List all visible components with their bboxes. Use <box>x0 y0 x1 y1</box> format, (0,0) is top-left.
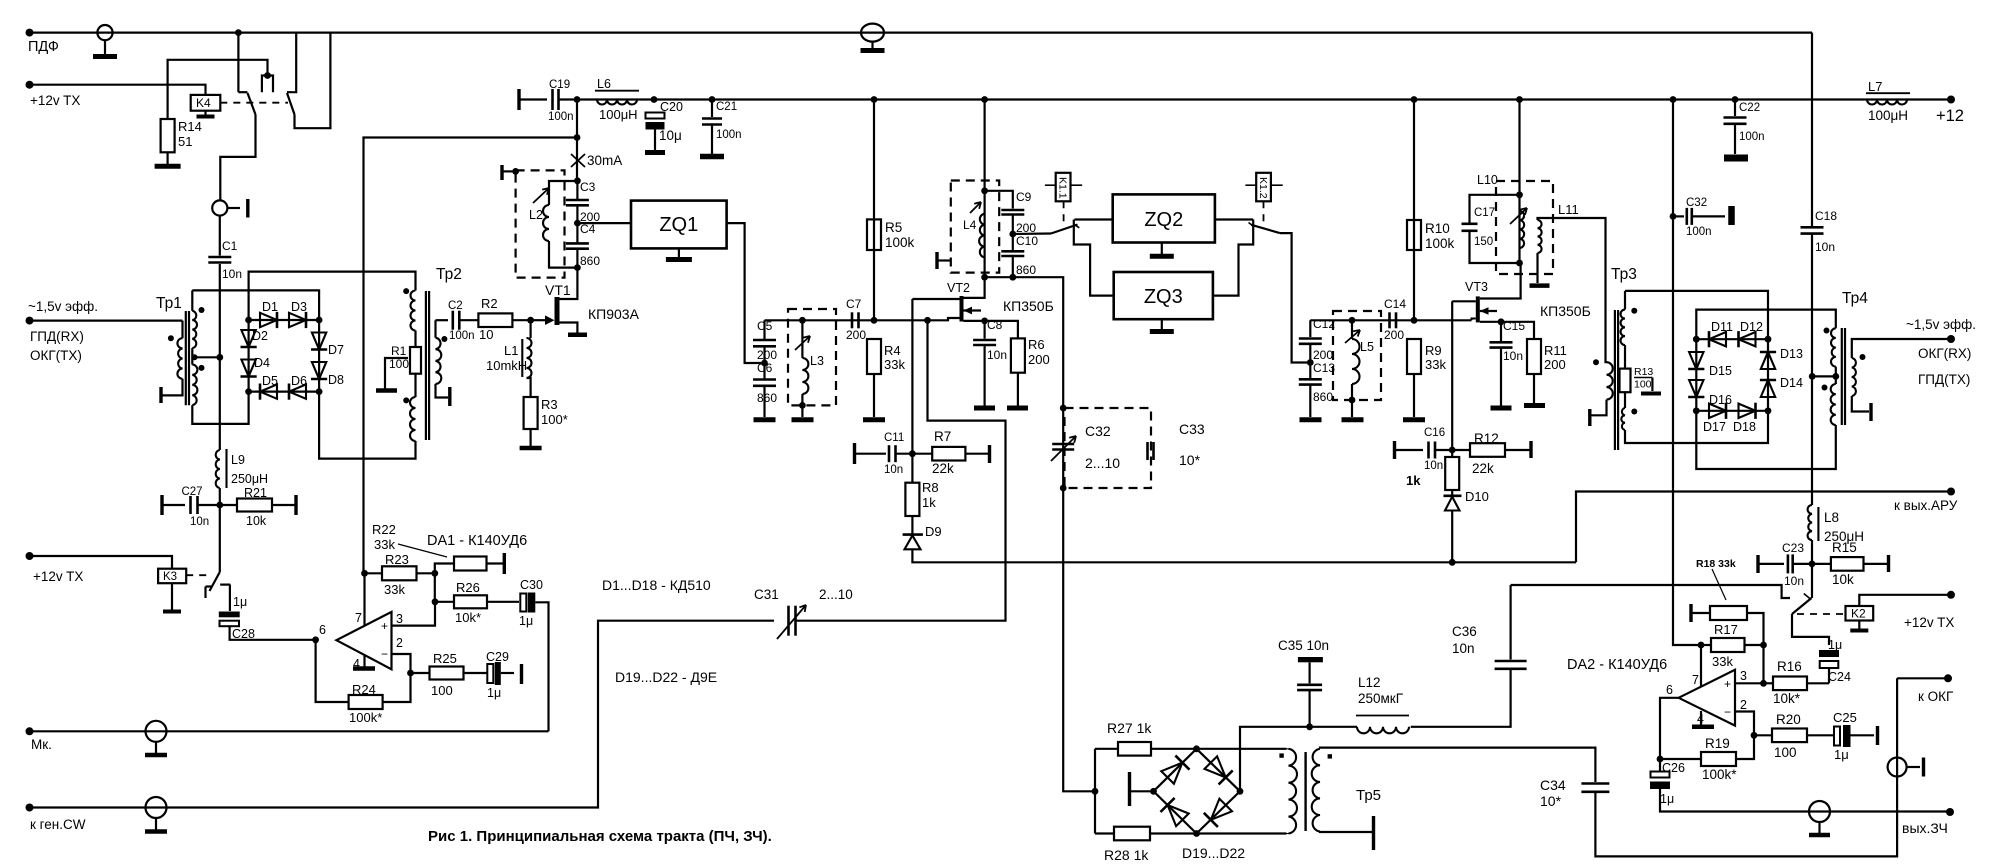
svg-text:250μH: 250μH <box>231 472 268 486</box>
svg-text:вых.ЗЧ: вых.ЗЧ <box>1902 820 1948 836</box>
svg-text:VT2: VT2 <box>947 281 970 295</box>
svg-text:33k: 33k <box>884 357 905 372</box>
svg-text:10n: 10n <box>1815 240 1835 254</box>
svg-text:100μH: 100μH <box>1868 108 1908 123</box>
svg-text:R24: R24 <box>352 682 376 697</box>
svg-text:R8: R8 <box>922 480 939 495</box>
svg-text:R14: R14 <box>178 119 202 134</box>
svg-text:3: 3 <box>396 612 403 626</box>
svg-text:C7: C7 <box>846 297 862 311</box>
svg-text:C32: C32 <box>1085 423 1111 439</box>
svg-text:R13: R13 <box>1634 366 1653 378</box>
svg-text:Рис 1. Принципиальная схема тр: Рис 1. Принципиальная схема тракта (ПЧ, … <box>428 828 772 845</box>
svg-text:C23: C23 <box>1782 541 1804 555</box>
svg-text:ГПД(RX): ГПД(RX) <box>30 329 84 344</box>
svg-text:L5: L5 <box>1360 340 1374 354</box>
svg-text:100n: 100n <box>548 111 574 123</box>
svg-text:10μ: 10μ <box>659 128 682 143</box>
svg-text:10mkH: 10mkH <box>486 358 527 373</box>
svg-text:10*: 10* <box>1179 452 1201 468</box>
svg-text:+12v TX: +12v TX <box>33 569 83 584</box>
svg-text:R28 1k: R28 1k <box>1104 847 1149 863</box>
svg-text:10n: 10n <box>1424 460 1443 472</box>
svg-text:10k*: 10k* <box>1773 691 1801 706</box>
svg-text:L1: L1 <box>504 343 518 358</box>
svg-text:C3: C3 <box>580 180 596 194</box>
svg-text:+: + <box>381 619 388 633</box>
svg-text:100*: 100* <box>541 412 568 427</box>
svg-text:R7: R7 <box>934 429 951 444</box>
svg-text:C33: C33 <box>1179 421 1205 437</box>
svg-text:R16: R16 <box>1777 659 1802 674</box>
svg-text:1k: 1k <box>922 495 936 510</box>
svg-text:22k: 22k <box>932 461 954 476</box>
svg-text:КП350Б: КП350Б <box>1003 298 1054 314</box>
svg-text:33k: 33k <box>374 537 395 552</box>
svg-text:Тр2: Тр2 <box>436 266 462 283</box>
svg-text:D12: D12 <box>1740 320 1763 334</box>
svg-text:1μ: 1μ <box>1834 747 1849 762</box>
svg-text:C25: C25 <box>1833 710 1857 725</box>
svg-text:L11: L11 <box>1558 202 1579 217</box>
svg-text:D19...D22 - Д9Е: D19...D22 - Д9Е <box>615 669 717 685</box>
svg-text:C21: C21 <box>716 101 737 113</box>
svg-text:C30: C30 <box>520 578 543 592</box>
svg-text:R27 1k: R27 1k <box>1107 720 1152 736</box>
svg-text:R4: R4 <box>884 343 901 358</box>
svg-text:ГПД(ТХ): ГПД(ТХ) <box>1918 372 1970 387</box>
svg-text:−: − <box>1724 705 1731 719</box>
svg-text:C18: C18 <box>1815 209 1837 223</box>
svg-text:100: 100 <box>1634 379 1652 391</box>
svg-text:L2: L2 <box>529 208 543 222</box>
svg-text:R11: R11 <box>1544 343 1567 358</box>
svg-text:100n: 100n <box>1686 226 1712 238</box>
svg-text:ОКГ(RX): ОКГ(RX) <box>1918 346 1971 361</box>
svg-text:R17: R17 <box>1714 622 1738 637</box>
svg-text:C31: C31 <box>754 587 779 602</box>
svg-text:10n: 10n <box>1452 641 1475 656</box>
svg-text:D10: D10 <box>1465 489 1489 504</box>
svg-text:1μ: 1μ <box>487 686 501 700</box>
svg-text:D8: D8 <box>328 373 344 387</box>
svg-text:C35 10n: C35 10n <box>1278 638 1329 653</box>
svg-text:10k: 10k <box>1832 572 1854 587</box>
svg-text:L7: L7 <box>1868 79 1882 94</box>
svg-text:C20: C20 <box>660 100 683 114</box>
svg-text:ZQ3: ZQ3 <box>1144 286 1183 308</box>
svg-text:30mA: 30mA <box>587 153 622 168</box>
svg-text:D2: D2 <box>252 329 268 343</box>
svg-text:R3: R3 <box>541 397 558 412</box>
svg-text:VT3: VT3 <box>1465 280 1488 294</box>
svg-text:R5: R5 <box>885 220 902 235</box>
svg-text:3: 3 <box>1740 669 1747 683</box>
svg-text:K1.2: K1.2 <box>1257 177 1269 199</box>
svg-text:1μ: 1μ <box>233 595 247 609</box>
svg-text:860: 860 <box>1313 390 1333 404</box>
svg-text:D6: D6 <box>291 374 307 388</box>
svg-text:R15: R15 <box>1832 540 1857 555</box>
svg-text:200: 200 <box>1028 352 1050 367</box>
svg-text:C2: C2 <box>448 300 463 312</box>
svg-text:ПДФ: ПДФ <box>28 39 59 55</box>
svg-text:C24: C24 <box>1828 670 1851 684</box>
svg-text:10n: 10n <box>987 348 1007 362</box>
svg-text:+: + <box>1724 677 1731 691</box>
svg-text:ZQ1: ZQ1 <box>659 214 698 236</box>
svg-text:1μ: 1μ <box>1660 792 1674 806</box>
svg-text:22k: 22k <box>1472 461 1494 476</box>
svg-text:200: 200 <box>1313 348 1333 362</box>
svg-text:6: 6 <box>1666 683 1673 697</box>
svg-text:R20: R20 <box>1776 712 1801 727</box>
svg-text:860: 860 <box>580 254 600 268</box>
svg-text:L4: L4 <box>963 218 977 232</box>
svg-text:+12v TX: +12v TX <box>1904 615 1954 630</box>
svg-text:к ген.CW: к ген.CW <box>30 817 86 832</box>
svg-text:2...10: 2...10 <box>819 587 853 602</box>
svg-text:L8: L8 <box>1824 510 1839 525</box>
svg-text:6: 6 <box>319 623 326 637</box>
svg-text:K1.1: K1.1 <box>1057 177 1069 199</box>
svg-text:K3: K3 <box>163 571 177 583</box>
svg-text:100n: 100n <box>716 129 742 141</box>
svg-text:1μ: 1μ <box>1828 638 1842 652</box>
svg-text:C22: C22 <box>1739 102 1760 114</box>
svg-text:C17: C17 <box>1474 207 1495 219</box>
svg-text:к вых.АРУ: к вых.АРУ <box>1894 498 1958 513</box>
svg-text:10*: 10* <box>1540 793 1562 809</box>
svg-text:250мкГ: 250мкГ <box>1358 691 1404 706</box>
svg-text:100μH: 100μH <box>599 107 638 122</box>
svg-text:2: 2 <box>1740 698 1747 712</box>
svg-text:R25: R25 <box>433 651 457 666</box>
svg-text:10n: 10n <box>1784 574 1804 588</box>
svg-text:R19: R19 <box>1705 736 1730 751</box>
svg-text:~1,5v эфф.: ~1,5v эфф. <box>28 299 98 314</box>
svg-text:D4: D4 <box>254 356 270 370</box>
svg-text:C26: C26 <box>1662 761 1685 775</box>
svg-text:C1: C1 <box>222 239 238 253</box>
svg-text:Тр3: Тр3 <box>1611 266 1637 283</box>
svg-text:КП903А: КП903А <box>588 306 640 322</box>
svg-text:L9: L9 <box>231 453 245 467</box>
svg-text:100k*: 100k* <box>349 710 382 725</box>
svg-text:10k: 10k <box>246 514 267 528</box>
svg-text:7: 7 <box>1692 673 1699 687</box>
svg-text:C9: C9 <box>1016 190 1032 204</box>
svg-text:КП350Б: КП350Б <box>1540 303 1591 319</box>
svg-text:D11: D11 <box>1711 320 1733 334</box>
svg-text:DA1 - К140УД6: DA1 - К140УД6 <box>427 533 527 549</box>
svg-text:7: 7 <box>355 611 362 625</box>
svg-text:10n: 10n <box>1503 349 1523 363</box>
svg-text:D1: D1 <box>262 300 278 314</box>
svg-text:10n: 10n <box>884 464 903 476</box>
svg-text:200: 200 <box>1544 357 1566 372</box>
svg-text:100: 100 <box>1774 745 1797 760</box>
svg-text:1k: 1k <box>1406 473 1421 488</box>
svg-text:200: 200 <box>757 348 777 362</box>
svg-text:D18: D18 <box>1733 420 1756 434</box>
svg-text:R23: R23 <box>385 552 409 567</box>
svg-text:DA2 - К140УД6: DA2 - К140УД6 <box>1567 657 1667 673</box>
svg-text:Тр1: Тр1 <box>156 295 182 312</box>
svg-text:D17: D17 <box>1703 420 1726 434</box>
svg-text:10n: 10n <box>222 267 242 281</box>
svg-text:200: 200 <box>846 328 866 342</box>
svg-text:+12: +12 <box>1936 107 1964 125</box>
svg-text:ZQ2: ZQ2 <box>1144 209 1183 231</box>
svg-text:R10: R10 <box>1425 221 1450 236</box>
svg-text:C16: C16 <box>1424 427 1445 439</box>
svg-text:100k: 100k <box>885 235 915 250</box>
svg-text:2...10: 2...10 <box>1085 455 1120 471</box>
svg-text:100: 100 <box>431 683 453 698</box>
svg-text:R21: R21 <box>244 486 267 500</box>
svg-text:C14: C14 <box>1384 297 1406 311</box>
svg-text:100n: 100n <box>449 330 475 342</box>
svg-text:R22: R22 <box>372 522 396 537</box>
svg-text:R12: R12 <box>1474 431 1499 446</box>
svg-text:860: 860 <box>1016 263 1036 277</box>
svg-text:к ОКГ: к ОКГ <box>1918 689 1954 704</box>
svg-text:K2: K2 <box>1851 607 1866 621</box>
svg-text:100k*: 100k* <box>1702 767 1737 782</box>
svg-text:150: 150 <box>1474 236 1493 248</box>
svg-text:R26: R26 <box>456 580 480 595</box>
svg-text:10n: 10n <box>190 516 209 528</box>
svg-text:C27: C27 <box>181 486 202 498</box>
svg-text:D3: D3 <box>291 300 307 314</box>
svg-text:K4: K4 <box>196 96 211 110</box>
svg-text:D13: D13 <box>1780 347 1803 361</box>
svg-text:L10: L10 <box>1477 173 1498 187</box>
svg-text:200: 200 <box>1384 328 1404 342</box>
svg-text:100k: 100k <box>1425 236 1455 251</box>
svg-text:C29: C29 <box>486 650 509 664</box>
svg-text:R1: R1 <box>391 344 407 358</box>
svg-text:L3: L3 <box>810 354 824 368</box>
svg-text:100n: 100n <box>1739 131 1765 143</box>
svg-text:10: 10 <box>479 327 493 342</box>
svg-text:Мк.: Мк. <box>31 737 52 752</box>
svg-text:ОКГ(ТХ): ОКГ(ТХ) <box>30 348 82 363</box>
svg-text:R2: R2 <box>481 296 498 311</box>
svg-text:L6: L6 <box>597 77 611 91</box>
svg-text:D19...D22: D19...D22 <box>1182 845 1245 861</box>
svg-text:D15: D15 <box>1709 364 1732 378</box>
svg-text:C36: C36 <box>1452 624 1477 639</box>
svg-text:R9: R9 <box>1425 343 1442 358</box>
svg-text:C32: C32 <box>1686 197 1707 209</box>
svg-text:VT1: VT1 <box>545 282 571 298</box>
svg-text:1μ: 1μ <box>519 614 533 628</box>
svg-text:D5: D5 <box>262 374 278 388</box>
svg-text:2: 2 <box>396 636 403 650</box>
svg-text:L12: L12 <box>1358 675 1381 690</box>
svg-text:51: 51 <box>178 134 192 149</box>
svg-text:D14: D14 <box>1780 376 1803 390</box>
svg-text:C10: C10 <box>1016 234 1038 248</box>
svg-text:R6: R6 <box>1028 337 1045 352</box>
svg-text:D1...D18 - КД510: D1...D18 - КД510 <box>602 577 711 593</box>
svg-text:D9: D9 <box>925 524 942 539</box>
svg-text:~1,5v эфф.: ~1,5v эфф. <box>1906 317 1976 332</box>
svg-text:33k: 33k <box>1712 654 1733 669</box>
svg-text:Тр5: Тр5 <box>1356 787 1381 804</box>
svg-text:10k*: 10k* <box>455 610 481 625</box>
svg-text:С34: С34 <box>1540 777 1566 793</box>
svg-text:Тр4: Тр4 <box>1842 290 1868 307</box>
svg-text:C19: C19 <box>549 79 570 91</box>
svg-text:33k: 33k <box>1425 357 1446 372</box>
svg-text:C6: C6 <box>757 361 773 375</box>
svg-text:C11: C11 <box>884 432 904 444</box>
svg-text:33k: 33k <box>384 582 405 597</box>
svg-text:R18 33k: R18 33k <box>1696 558 1736 570</box>
svg-text:+12v TX: +12v TX <box>30 93 80 108</box>
svg-text:−: − <box>381 647 388 661</box>
svg-text:D7: D7 <box>328 343 344 357</box>
svg-text:860: 860 <box>757 391 777 405</box>
